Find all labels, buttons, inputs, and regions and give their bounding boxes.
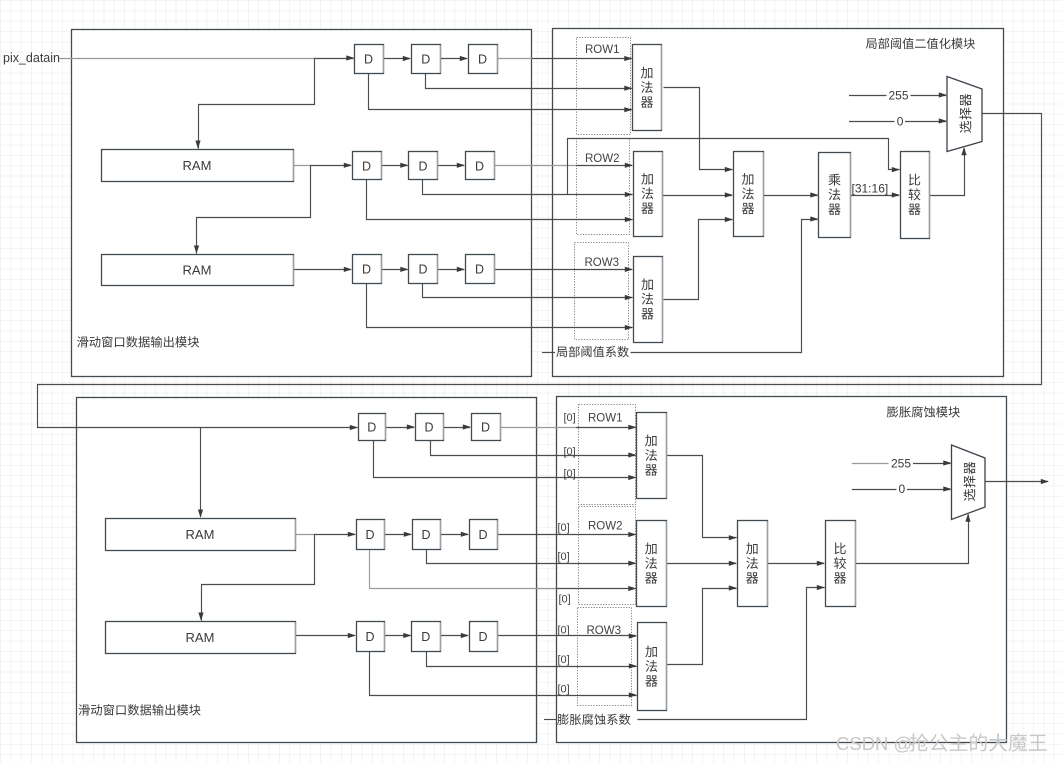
RAM B2 (line buffer): [106, 622, 296, 654]
flip-flop FF B13 (D): [472, 414, 501, 441]
adder B4 (sum of rows): [738, 521, 768, 607]
wire: FF B21 tap to adder B2 input 3: [370, 550, 557, 589]
svg-text:ROW2: ROW2: [588, 521, 623, 533]
wire: comparator CMP1 output to selector MUX1 select: [930, 149, 965, 196]
wire: FF T21 to FF T22: [381, 165, 408, 167]
module title: dilation-erosion (M4): [887, 406, 960, 417]
flip-flop FF B23 (D): [470, 520, 498, 550]
svg-text:D: D: [362, 262, 371, 276]
svg-text:D: D: [424, 420, 433, 434]
RAM T1 (line buffer): [102, 150, 294, 182]
svg-text:RAM: RAM: [183, 158, 212, 173]
comparator CMP2: [826, 521, 856, 607]
wire: FF T12 tap to adder A1 input 2: [426, 74, 632, 89]
svg-text:D: D: [367, 420, 376, 434]
flip-flop FF T11 (D): [355, 45, 384, 74]
wire: RAM B1 output to FF B21: [295, 534, 315, 536]
wire: FF T23 output to adder A2 input 1: [494, 165, 576, 167]
adder B1 (ROW1): [637, 413, 667, 499]
flip-flop FF T13 (D): [469, 45, 498, 74]
wire: FF B22 to FF B23: [440, 534, 468, 536]
wire: selector MUX1 output routed down to bottom half: [38, 114, 1042, 428]
wire: dilation-erosion coefficient input stub: [544, 719, 556, 721]
wire: adder B3 output to adder B4 input 3: [667, 589, 737, 665]
wire: constant 255 to selector MUX2 input 1: [852, 463, 889, 465]
svg-text:D: D: [362, 159, 371, 173]
wire: adder B4 output to comparator CMP2: [768, 563, 825, 565]
wire: FF T11 to FF T12: [383, 58, 410, 60]
wire: FF T32 to FF T33: [438, 269, 465, 271]
svg-text:ROW1: ROW1: [588, 413, 623, 425]
svg-text:ROW3: ROW3: [585, 257, 620, 269]
wire: FF B22 tap to adder B2 input 2: [427, 550, 636, 564]
adder B2 (ROW2): [637, 521, 667, 607]
module label: sliding-window data output (top M1): [77, 336, 199, 347]
wire: FF T21 tap to adder A2 input 3: [367, 180, 633, 220]
module label: sliding-window data output (bottom M3): [79, 704, 201, 715]
selector MUX1 (trapezoid): [947, 77, 982, 152]
wire: FF B31 to FF B32: [384, 635, 411, 637]
svg-text:[0]: [0]: [564, 446, 576, 458]
svg-text:RAM: RAM: [183, 263, 212, 278]
flip-flop FF B11 (D): [359, 414, 386, 441]
svg-text:D: D: [421, 52, 430, 66]
RAM B1 (line buffer): [106, 519, 296, 551]
net label: local threshold coefficient: [556, 346, 629, 357]
svg-text:0: 0: [897, 114, 904, 128]
wire: tap down from pix_datain line to RAM T1: [199, 59, 315, 149]
wire: selector MUX2 output pix_dataout: [985, 481, 1048, 483]
svg-text:D: D: [418, 159, 427, 173]
wire: RAM T2 output to FF T31: [293, 269, 351, 271]
wire: multiplier MUL1 output [31:16] to comparator CMP1: [851, 195, 900, 197]
svg-text:D: D: [478, 630, 487, 644]
multiplier MUL1: [819, 153, 851, 238]
wire: constant 0 to selector MUX2 input 2: [852, 489, 897, 491]
svg-text:255: 255: [889, 88, 909, 102]
svg-text:ROW1: ROW1: [585, 44, 620, 56]
wire: FF B23 output to adder B2 input 1: [497, 534, 636, 536]
wire: FF T22 to FF T23: [438, 165, 465, 167]
svg-text:ROW3: ROW3: [587, 625, 622, 637]
svg-text:D: D: [418, 262, 427, 276]
wire: FF B13 output to adder B1 input 1: [500, 427, 576, 429]
svg-text:D: D: [478, 528, 487, 542]
wire: tap down from M3 input line to RAM B1: [200, 428, 202, 518]
module box M2: local threshold binarization (top-right): [553, 29, 1004, 377]
svg-text:RAM: RAM: [186, 630, 215, 645]
wire: FF B33 output to adder B3 input 1: [497, 635, 636, 637]
dotted group ROW3 (bottom): [578, 608, 632, 706]
svg-text:[0]: [0]: [559, 594, 571, 606]
wire: tap down from RAM T1 output to RAM T2: [197, 166, 311, 254]
wire: FF B32 tap to adder B3 input 2: [427, 652, 637, 667]
comparator CMP1: [901, 152, 930, 239]
flip-flop FF T22 (D): [409, 152, 438, 180]
wire: adder A1 output to adder A4 input 1: [664, 88, 733, 170]
svg-text:[0]: [0]: [564, 468, 576, 480]
svg-text:D: D: [365, 528, 374, 542]
svg-text:D: D: [421, 630, 430, 644]
svg-text:0: 0: [899, 482, 906, 496]
wire: RAM B2 output to FF B31: [295, 635, 355, 637]
wire: comparator CMP2 output to selector MUX2 select: [856, 515, 969, 564]
wire: dilation-erosion coefficient to comparator CMP2 input 2: [638, 588, 825, 720]
selector MUX2 (trapezoid): [952, 445, 986, 520]
svg-text:D: D: [475, 159, 484, 173]
flip-flop FF T31 (D): [353, 255, 382, 284]
wire: FF T12 to FF T13: [440, 58, 467, 60]
wire: adder A4 output to multiplier MUL1: [764, 195, 818, 197]
dotted group ROW1 (top): [577, 38, 631, 135]
wire: FF T33 output to adder A3 input 1: [494, 269, 632, 271]
wire: RAM T1 output to FF T21: [293, 165, 311, 167]
wire: local threshold coefficient to multiplier MUL1 input 2: [631, 220, 818, 353]
flip-flop FF T12 (D): [412, 45, 441, 74]
wire: local threshold coefficient input stub: [542, 352, 555, 354]
flip-flop FF B21 (D): [357, 520, 385, 550]
adder B3 (ROW3): [638, 623, 667, 711]
svg-text:pix_datain: pix_datain: [3, 51, 60, 65]
wire: FF B31 tap to adder B3 input 3: [370, 652, 637, 696]
svg-text:RAM: RAM: [186, 527, 215, 542]
svg-text:D: D: [421, 528, 430, 542]
module box M4: dilation-erosion (bottom-right): [557, 397, 1007, 743]
wire: FF B12 to FF B13: [443, 427, 470, 429]
flip-flop FF B33 (D): [470, 622, 498, 652]
wire: FF B12 tap to adder B1 input 2: [431, 441, 636, 456]
net label: dilation-erosion coefficient: [557, 714, 630, 725]
adder A4 (sum of rows): [734, 152, 764, 237]
svg-text:D: D: [475, 262, 484, 276]
flip-flop FF B22 (D): [413, 520, 441, 550]
svg-text:D: D: [364, 52, 373, 66]
svg-text:255: 255: [891, 456, 911, 470]
wire: FF T31 to FF T32: [381, 269, 408, 271]
svg-text:CSDN @: CSDN @: [836, 733, 912, 754]
adder A3 (ROW3): [634, 257, 663, 343]
flip-flop FF B32 (D): [412, 622, 441, 652]
dotted group ROW3 (top): [575, 243, 629, 340]
wire: pix_datain input to FF T11: [60, 58, 315, 60]
flip-flop FF B12 (D): [416, 414, 444, 441]
svg-text:D: D: [481, 420, 490, 434]
wire: constant 255 to selector MUX1 input 1: [849, 95, 887, 97]
wire: adder B2 output to adder B4 input 2: [666, 563, 736, 565]
flip-flop FF T21 (D): [353, 152, 382, 180]
wire: FF T11 tap to adder A1 input 3: [369, 74, 632, 110]
wire: center-pixel tap to comparator CMP1 input 1: [568, 139, 900, 195]
svg-text:[0]: [0]: [564, 412, 576, 424]
wire: adder A2 output to adder A4 input 2: [663, 195, 732, 197]
adder A1 (ROW1): [633, 45, 662, 131]
svg-text:[0]: [0]: [558, 654, 570, 666]
wire: FF T13 output to adder A1 input 1: [497, 58, 532, 60]
flip-flop FF T33 (D): [466, 255, 495, 284]
wire: FF B11 tap to adder B1 input 3: [374, 441, 636, 478]
module title: local threshold binarization (M2): [866, 38, 975, 49]
flip-flop FF T32 (D): [409, 255, 438, 284]
flip-flop FF B31 (D): [357, 622, 385, 652]
wire: FF T31 tap to adder A3 input 3: [367, 284, 633, 328]
RAM T2 (line buffer): [102, 255, 294, 286]
module box M1: sliding-window data output (top-left): [72, 30, 532, 377]
adder A2 (ROW2): [634, 152, 663, 237]
module box M3: sliding-window data output (bottom-left): [77, 398, 537, 743]
wire: FF T32 tap to adder A3 input 2: [423, 284, 633, 298]
svg-text:[0]: [0]: [558, 551, 570, 563]
wire: FF B11 to FF B12: [386, 427, 415, 429]
svg-text:ROW2: ROW2: [585, 153, 620, 165]
svg-text:[0]: [0]: [558, 684, 570, 696]
svg-text:[0]: [0]: [558, 522, 570, 534]
wire: constant 0 to selector MUX1 input 2: [849, 121, 895, 123]
wire: FF B32 to FF B33: [440, 635, 468, 637]
dotted group ROW2 (top): [577, 139, 630, 235]
svg-text:[31:16]: [31:16]: [852, 182, 889, 196]
wire: FF T22 tap to adder A2 input 2 (center-pixel net): [423, 180, 633, 195]
svg-text:D: D: [478, 52, 487, 66]
svg-text:[0]: [0]: [558, 625, 570, 637]
wire: FF B21 to FF B22: [384, 534, 411, 536]
flip-flop FF T23 (D): [466, 152, 495, 180]
svg-text:D: D: [365, 630, 374, 644]
dotted group ROW1 (bottom): [579, 405, 636, 505]
wire: tap down from RAM B1 output to RAM B2: [202, 535, 315, 621]
dotted group ROW2 (bottom): [579, 507, 636, 605]
wire: adder A3 output to adder A4 input 3: [664, 220, 733, 300]
wire: adder B1 output to adder B4 input 1: [667, 456, 737, 538]
